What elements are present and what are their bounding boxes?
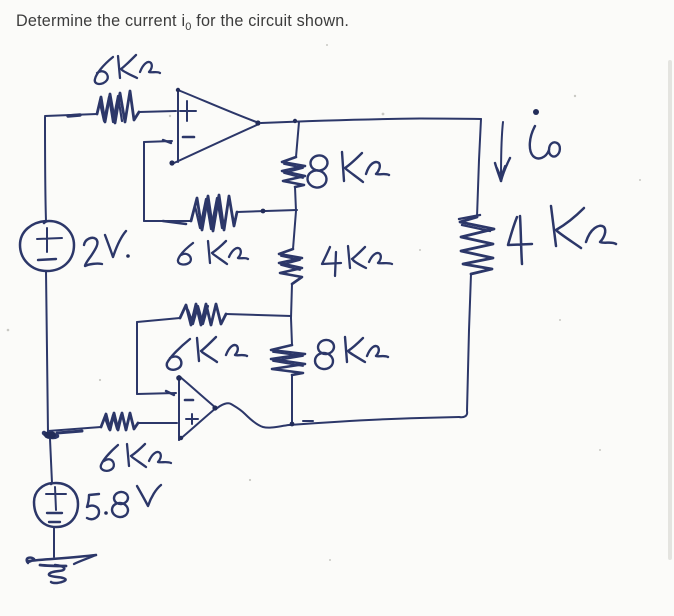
wire: bottom horizontal to right corner [289, 417, 459, 426]
printed problem statement [16, 12, 349, 33]
label 4k middle [322, 246, 392, 276]
wire: U2 output squiggle to bottom wire [212, 403, 289, 427]
resistor R 6k feedback-1 [191, 195, 237, 231]
label i0 [530, 109, 560, 158]
wire: junction to 6k bottom resistor [48, 427, 101, 433]
wire: feedback-1 resistor to middle chain [237, 209, 297, 214]
label 6k top-left [95, 55, 160, 84]
wire: chain 4k down to feedback-2 tap [291, 284, 292, 318]
current arrow i0 [495, 122, 510, 181]
wire: right branch vertical up from bottom corner to 4k [459, 274, 471, 417]
resistor R 6k top-left [97, 91, 139, 123]
op-amp U2 [176, 375, 216, 440]
label 8k lower [314, 337, 388, 370]
wire: U1 output to top-right corner [261, 119, 481, 124]
wire: chain 8k to 4k with feedback tap node [293, 187, 296, 249]
wire: chain 8k lower down to bottom node [291, 375, 293, 424]
op-amp U1 [169, 88, 260, 166]
junction bottom-left node [44, 431, 57, 439]
label 5.8V [87, 485, 161, 519]
resistor R 4k right (vertical zigzag) [459, 215, 494, 274]
voltage source V 5.8V [34, 483, 78, 527]
label 4k right [508, 206, 616, 264]
resistor R 6k bottom [101, 413, 138, 430]
wire: resistor to op-amp U1 + input [139, 111, 176, 112]
wire: 2V source down to bottom-left junction [46, 271, 48, 433]
resistor R 8k upper (vertical scribble) [282, 157, 305, 187]
scan right-edge shading [668, 60, 672, 560]
label 6k feedback-1 [178, 241, 248, 264]
wire: top-left horizontal to resistor [45, 114, 97, 116]
wire: chain feedback-2 tap down to 8k lower [291, 318, 292, 345]
resistor R 6k feedback-2 [180, 304, 226, 325]
wire: left branch vertical from 2V source up to top-left corner [45, 117, 46, 221]
label 6k feedback-2 [167, 337, 247, 370]
ground [27, 555, 96, 583]
wire: top-right corner down to 4k right [477, 119, 481, 217]
label 6k bottom [101, 444, 171, 471]
label 2V [84, 231, 130, 266]
wire: junction down to 5.8V source [50, 439, 52, 483]
scan speckles [7, 44, 641, 561]
resistor R 4k middle (vertical scribble) [279, 249, 302, 284]
resistor R 8k lower (vertical scribble) [271, 345, 305, 375]
wire: feedback-2 left leg down to U2 inverting input [137, 318, 180, 395]
wire: U1 inverting input to feedback node [144, 140, 191, 224]
wire: feedback-2 resistor to chain [226, 314, 291, 316]
voltage source V 2V [20, 221, 74, 271]
wire: 6k bottom resistor to U2 + input [138, 422, 177, 424]
wire: 5.8V source to ground [53, 527, 55, 557]
label 8k upper [306, 152, 389, 189]
wire: chain segment op-amp output down to 8k [296, 122, 299, 157]
